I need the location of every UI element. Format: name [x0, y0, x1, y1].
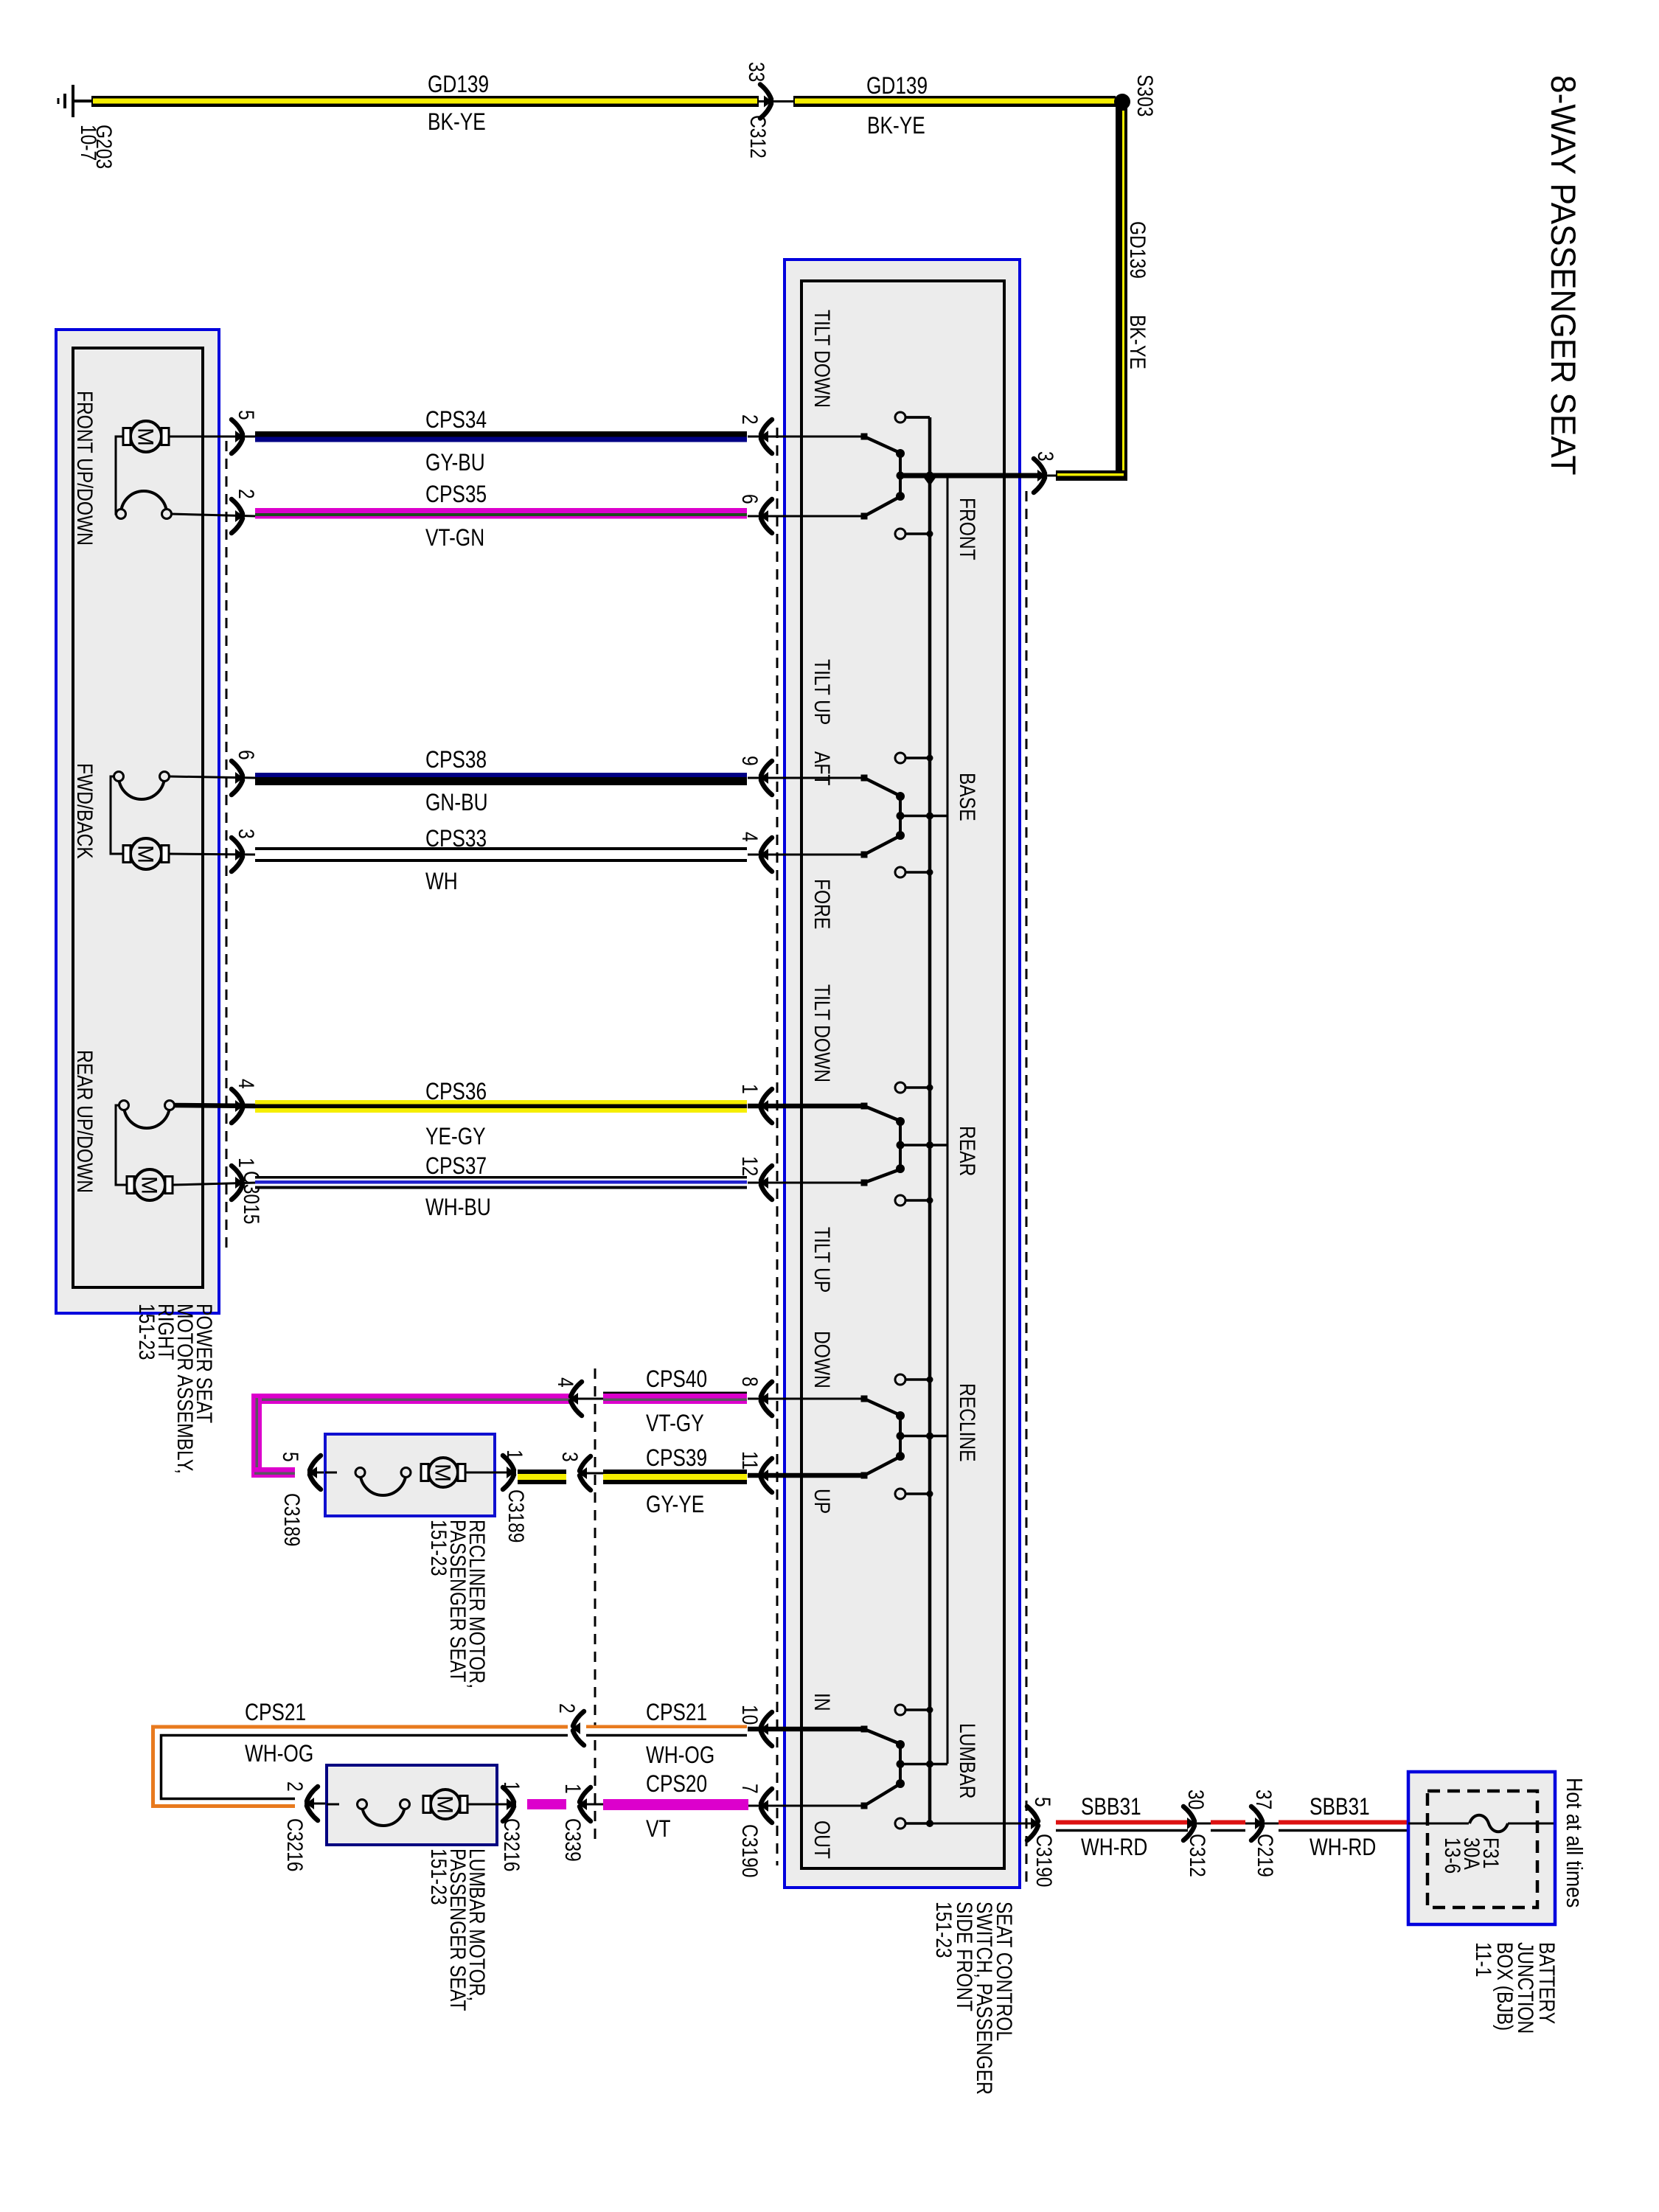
- svg-text:151-23: 151-23: [931, 1902, 956, 1958]
- svg-text:OUT: OUT: [810, 1820, 835, 1859]
- svg-text:VT-GY: VT-GY: [646, 1411, 704, 1437]
- wire M2 field to pin 6: [169, 776, 256, 778]
- svg-text:UP: UP: [810, 1489, 835, 1514]
- connector C3189/C339 dashed line: [594, 1368, 597, 1843]
- switch REAR upper contact circle: [895, 1082, 905, 1093]
- component box RECLINER MOTOR: [325, 1434, 495, 1516]
- connector C3189 pin 4 inline: [571, 1382, 582, 1416]
- svg-text:4: 4: [553, 1377, 578, 1388]
- switch pin 9 lead: [748, 777, 864, 779]
- motor M3 REAR UP/DOWN: [116, 1105, 127, 1185]
- switch pin 8 arrow: [761, 1382, 772, 1416]
- svg-text:GN-BU: GN-BU: [425, 790, 488, 816]
- recliner motor internals: [325, 1472, 337, 1474]
- motor M2 FWD/BACK: [111, 776, 123, 854]
- ground G203: [72, 85, 74, 117]
- connector C312 pin 33 inline: [759, 100, 793, 102]
- svg-text:REAR UP/DOWN: REAR UP/DOWN: [72, 1050, 97, 1193]
- svg-text:GY-BU: GY-BU: [425, 451, 485, 476]
- svg-text:30: 30: [1183, 1790, 1208, 1809]
- svg-text:5: 5: [278, 1452, 303, 1462]
- svg-text:CPS36: CPS36: [425, 1079, 487, 1105]
- connector C3015 dashed line: [226, 441, 228, 1253]
- switch REAR pivot contacts: [896, 1117, 905, 1126]
- switch LUMBAR common to bus: [900, 1763, 947, 1766]
- svg-text:BASE: BASE: [955, 773, 980, 821]
- svg-text:BK-YE: BK-YE: [867, 114, 925, 139]
- inner box switch: [801, 281, 1004, 1868]
- fuse box dashed outline: [1427, 1791, 1537, 1907]
- lumbar motor pin 1 lead: [497, 1804, 516, 1806]
- switch pin 2 lead: [748, 436, 864, 438]
- switch BASE lower contact circle: [895, 867, 905, 877]
- svg-text:GD139: GD139: [428, 72, 489, 98]
- svg-text:37: 37: [1251, 1790, 1276, 1809]
- svg-text:CPS35: CPS35: [425, 482, 487, 508]
- switch REAR lower blade: [861, 1180, 868, 1186]
- recliner motor pin 1 lead: [495, 1472, 516, 1474]
- svg-text:3: 3: [557, 1452, 582, 1462]
- wire SBB31 WH-RD segment 2: [1211, 1820, 1245, 1825]
- wire CPS38 GN-BU: [255, 773, 747, 777]
- svg-text:151-23: 151-23: [134, 1304, 159, 1360]
- switch LUMBAR upper blade: [861, 1726, 868, 1733]
- wire GD139 BK-YE elbow to switch pin 3: [1056, 470, 1127, 481]
- svg-text:M: M: [431, 1464, 455, 1482]
- svg-text:M: M: [133, 845, 158, 863]
- wire CPS40 VT-GY right segment: [603, 1392, 747, 1394]
- svg-text:C3190: C3190: [1032, 1834, 1057, 1887]
- connector C219 pin 37 inline: [1251, 1806, 1262, 1840]
- svg-text:2: 2: [282, 1781, 307, 1792]
- svg-text:M: M: [433, 1795, 457, 1814]
- svg-text:33: 33: [744, 62, 769, 82]
- wire CPS37 WH-BU: [255, 1176, 747, 1179]
- wire M1 to pin 5: [169, 436, 256, 438]
- switch pin 12 lead: [748, 1182, 864, 1184]
- svg-text:4: 4: [737, 832, 762, 842]
- switch pin 6 lead: [748, 515, 864, 518]
- svg-text:10: 10: [737, 1705, 762, 1725]
- wire CPS39 GY-YE main segment: [603, 1470, 747, 1474]
- connector C3015 pin 4: [232, 1089, 243, 1123]
- svg-text:M: M: [137, 1176, 161, 1194]
- switch pin 11 lead thick: [748, 1473, 864, 1478]
- svg-text:C3216: C3216: [499, 1818, 524, 1871]
- switch pin 3 lead: [1020, 475, 1056, 477]
- wire GD139 BK-YE vertical drop: [1116, 102, 1127, 481]
- svg-text:TILT DOWN: TILT DOWN: [810, 310, 835, 408]
- svg-text:LUMBAR: LUMBAR: [955, 1723, 980, 1798]
- switch RECLINE upper contact circle: [895, 1374, 905, 1385]
- wire CPS40 VT-GY left segment with elbow: [254, 1394, 569, 1404]
- splice S303: [1114, 94, 1130, 110]
- switch BASE lower blade: [861, 852, 868, 858]
- component box LUMBAR MOTOR: [327, 1765, 497, 1845]
- svg-text:7: 7: [737, 1784, 762, 1794]
- switch REAR lower contact circle: [895, 1195, 905, 1206]
- svg-text:2: 2: [554, 1703, 580, 1714]
- svg-text:CPS21: CPS21: [646, 1700, 707, 1726]
- svg-text:Hot at all times: Hot at all times: [1561, 1778, 1586, 1907]
- switch pin 1 lead thick: [748, 1104, 864, 1109]
- switch RECLINE pivot contacts: [896, 1411, 905, 1420]
- wire SBB31 WH-RD segment 3: [1279, 1820, 1408, 1825]
- lumbar motor internals: [327, 1804, 339, 1806]
- switch RECLINE upper blade: [861, 1396, 868, 1402]
- connector C3015 pin 2: [232, 499, 243, 533]
- svg-text:151-23: 151-23: [426, 1848, 451, 1905]
- switch RECLINE lower blade: [861, 1472, 868, 1479]
- svg-text:13-6: 13-6: [1440, 1837, 1465, 1874]
- svg-text:4: 4: [234, 1079, 259, 1089]
- fuse F31 lead left: [1408, 1823, 1469, 1825]
- component box POWER SEAT MOTOR ASSEMBLY: [56, 330, 219, 1313]
- switch BASE upper blade: [861, 775, 868, 782]
- svg-text:M: M: [133, 428, 158, 446]
- component box BATTERY JUNCTION BOX: [1408, 1772, 1555, 1924]
- svg-text:6: 6: [737, 494, 762, 504]
- svg-text:FRONT: FRONT: [955, 498, 980, 560]
- svg-text:C3190: C3190: [737, 1824, 762, 1877]
- connector C339 pin 3 inline: [580, 1456, 591, 1490]
- svg-text:6: 6: [234, 750, 259, 760]
- wire CPS34 GY-BU: [255, 431, 747, 437]
- svg-text:SBB31: SBB31: [1081, 1795, 1141, 1820]
- svg-text:YE-GY: YE-GY: [425, 1124, 486, 1150]
- wire CPS21 WH-OG left segment with U-turn: [157, 1731, 568, 1803]
- svg-text:C3189: C3189: [279, 1493, 305, 1546]
- svg-text:CPS38: CPS38: [425, 748, 487, 773]
- switch FRONT lower contact circle: [895, 529, 905, 539]
- svg-text:CPS33: CPS33: [425, 827, 487, 852]
- wire CPS21 WH-OG right segment: [586, 1725, 747, 1729]
- switch BASE upper contact circle: [895, 753, 905, 763]
- svg-text:1: 1: [560, 1784, 585, 1794]
- svg-text:3: 3: [234, 829, 259, 839]
- svg-text:GY-YE: GY-YE: [646, 1492, 704, 1518]
- svg-text:CPS37: CPS37: [425, 1154, 487, 1180]
- svg-text:8-WAY PASSENGER SEAT: 8-WAY PASSENGER SEAT: [1544, 75, 1583, 476]
- svg-text:C3216: C3216: [282, 1818, 307, 1871]
- wire GD139 BK-YE segment right: [793, 96, 1116, 107]
- svg-text:C219: C219: [1253, 1834, 1278, 1877]
- svg-text:2: 2: [234, 489, 259, 499]
- connector C3015 pin 3: [232, 838, 243, 872]
- svg-text:WH: WH: [425, 869, 458, 895]
- wire CPS39 GY-YE short segment: [518, 1470, 566, 1474]
- switch RECLINE common to bus: [900, 1435, 947, 1438]
- wire CPS35 VT-GN: [255, 508, 747, 519]
- svg-text:2: 2: [737, 414, 762, 425]
- recliner motor pin 5 lead: [307, 1472, 325, 1474]
- fuse F31 element: [1470, 1815, 1508, 1832]
- svg-text:REAR: REAR: [955, 1126, 980, 1176]
- switch REAR upper blade: [861, 1103, 868, 1110]
- wire CPS33 WH: [255, 847, 747, 850]
- svg-text:WH-RD: WH-RD: [1081, 1835, 1147, 1861]
- connector C3015 pin 6: [232, 761, 243, 795]
- svg-text:SBB31: SBB31: [1310, 1795, 1370, 1820]
- svg-text:CPS21: CPS21: [245, 1700, 306, 1726]
- wire GD139 BK-YE segment left: [91, 96, 759, 107]
- svg-text:CPS39: CPS39: [646, 1446, 707, 1472]
- motor M1 FRONT UP/DOWN: [116, 437, 123, 514]
- switch FRONT pivot contacts: [896, 449, 905, 458]
- svg-text:FRONT UP/DOWN: FRONT UP/DOWN: [72, 391, 97, 546]
- wire M3 field to pin 4 thick: [174, 1105, 256, 1106]
- svg-text:WH-OG: WH-OG: [646, 1743, 714, 1769]
- connector C3216 pin 2 inline: [573, 1711, 584, 1745]
- svg-text:FWD/BACK: FWD/BACK: [72, 763, 97, 859]
- component box SEAT CONTROL SWITCH: [785, 260, 1020, 1888]
- fuse F31 lead right: [1508, 1823, 1554, 1825]
- switch RECLINE lower contact circle: [895, 1489, 905, 1499]
- svg-text:FORE: FORE: [810, 879, 835, 929]
- svg-text:TILT UP: TILT UP: [810, 1227, 835, 1293]
- switch FRONT lower blade: [861, 513, 868, 520]
- wire M1 field to pin 2: [171, 514, 256, 516]
- svg-text:CPS20: CPS20: [646, 1772, 707, 1798]
- switch FRONT upper blade: [861, 434, 868, 440]
- svg-text:3: 3: [1033, 451, 1058, 462]
- switch FRONT common wire to pin 3 thick: [900, 473, 1040, 479]
- svg-text:C312: C312: [1185, 1834, 1210, 1877]
- svg-text:WH-BU: WH-BU: [425, 1195, 491, 1221]
- svg-text:5: 5: [234, 410, 259, 420]
- svg-text:C3189: C3189: [504, 1489, 529, 1543]
- svg-text:10-7: 10-7: [76, 125, 101, 161]
- svg-text:C312: C312: [745, 115, 771, 159]
- connector C3015 pin 1: [232, 1166, 243, 1200]
- svg-text:GD139: GD139: [866, 74, 928, 100]
- switch pin 5 feed line: [905, 1823, 1040, 1825]
- switch LUMBAR pivot contacts: [896, 1740, 905, 1749]
- wire CPS36 YE-GY: [255, 1100, 747, 1113]
- svg-text:1: 1: [234, 1158, 259, 1168]
- switch pin 8 lead: [748, 1398, 864, 1400]
- switch LUMBAR upper contact circle: [895, 1705, 905, 1715]
- svg-text:TILT DOWN: TILT DOWN: [810, 984, 835, 1082]
- connector C3015 pin 5: [232, 420, 243, 453]
- svg-text:1: 1: [737, 1084, 762, 1094]
- switch pin 4 lead: [748, 854, 864, 856]
- switch FRONT upper contact circle: [895, 412, 905, 422]
- svg-text:12: 12: [737, 1156, 762, 1176]
- switch battery bus: [928, 417, 932, 1823]
- svg-text:BK-YE: BK-YE: [1125, 315, 1150, 369]
- lumbar motor pin 2 lead: [305, 1803, 327, 1805]
- svg-text:TILT UP: TILT UP: [810, 659, 835, 725]
- switch pin 7 lead: [748, 1805, 864, 1807]
- svg-text:5: 5: [1030, 1797, 1055, 1807]
- svg-text:BK-YE: BK-YE: [428, 110, 486, 136]
- svg-text:11: 11: [737, 1451, 762, 1470]
- svg-text:RECLINE: RECLINE: [955, 1383, 980, 1462]
- svg-text:C339: C339: [560, 1818, 585, 1862]
- svg-text:WH-RD: WH-RD: [1310, 1835, 1376, 1861]
- svg-text:IN: IN: [810, 1693, 835, 1711]
- svg-text:CPS34: CPS34: [425, 408, 487, 434]
- svg-text:S303: S303: [1133, 74, 1158, 116]
- svg-text:1: 1: [499, 1781, 524, 1792]
- switch common bus: [947, 476, 949, 1764]
- wire CPS20 VT main segment: [603, 1799, 748, 1810]
- switch pin 10 lead thick: [748, 1727, 864, 1732]
- svg-text:AFT: AFT: [810, 751, 835, 786]
- svg-text:11-1: 11-1: [1471, 1942, 1496, 1977]
- svg-text:GD139: GD139: [1125, 221, 1150, 279]
- wire M3 to pin 1: [173, 1183, 256, 1185]
- svg-text:8: 8: [737, 1377, 762, 1387]
- svg-text:DOWN: DOWN: [810, 1331, 835, 1388]
- connector C3190 dashed line right: [1026, 491, 1028, 1885]
- svg-text:9: 9: [737, 756, 762, 766]
- connector C339 pin 1 inline: [580, 1787, 591, 1821]
- inner box motor assembly: [73, 348, 203, 1287]
- switch LUMBAR lower blade: [861, 1803, 868, 1809]
- svg-text:CPS40: CPS40: [646, 1367, 707, 1393]
- wire M2 to pin 3: [169, 854, 256, 855]
- svg-text:VT-GN: VT-GN: [425, 526, 484, 552]
- wire VT short segment: [527, 1799, 566, 1809]
- svg-text:VT: VT: [646, 1817, 671, 1843]
- switch LUMBAR lower contact circle: [895, 1818, 905, 1829]
- svg-text:1: 1: [502, 1450, 527, 1460]
- svg-text:WH-OG: WH-OG: [245, 1742, 313, 1767]
- wire SBB31 WH-RD segment 1: [1056, 1820, 1188, 1825]
- switch BASE pivot contacts: [896, 792, 905, 801]
- svg-text:151-23: 151-23: [426, 1520, 451, 1576]
- switch REAR common to bus: [900, 1144, 947, 1147]
- switch BASE common to bus: [900, 815, 947, 818]
- connector C312 pin 30 inline: [1183, 1806, 1194, 1840]
- connector C3190 dashed line left: [776, 428, 779, 1865]
